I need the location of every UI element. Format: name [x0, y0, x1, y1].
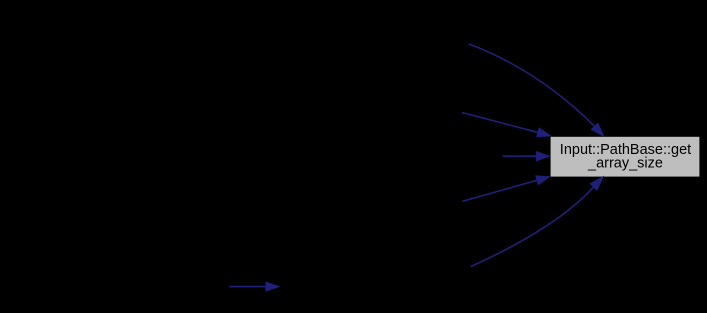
svg-text:_array_size: _array_size — [587, 156, 663, 172]
